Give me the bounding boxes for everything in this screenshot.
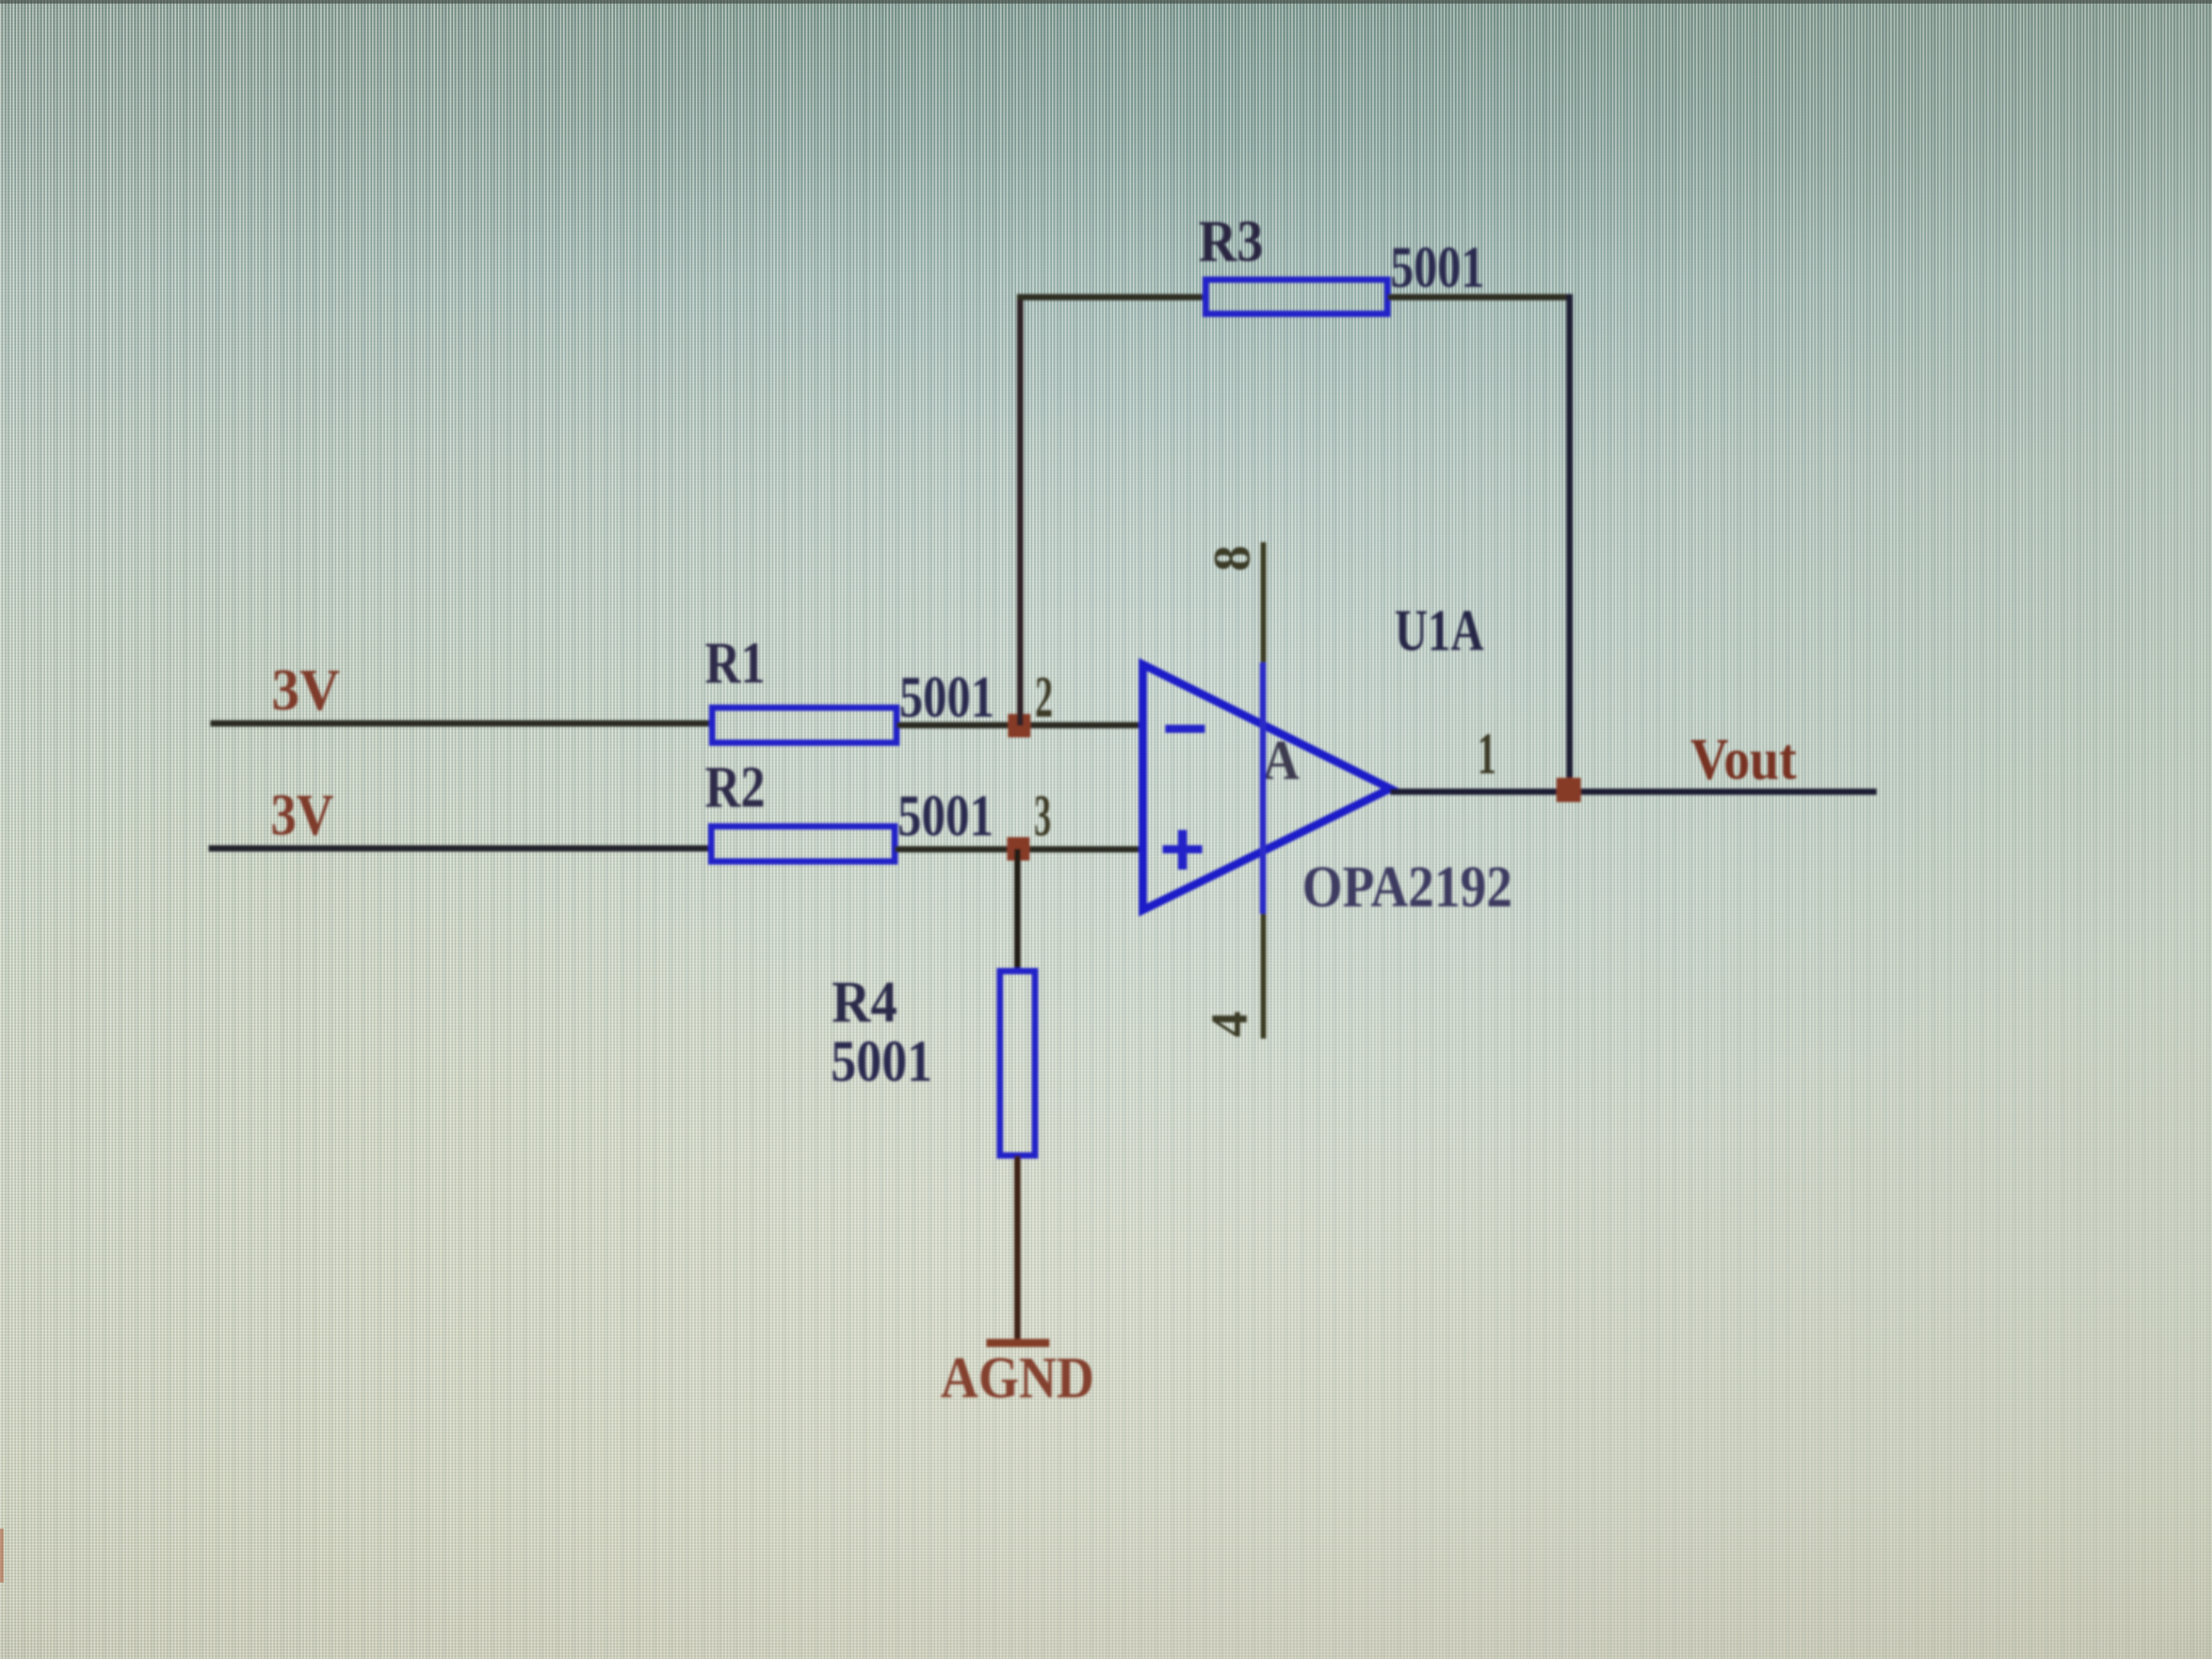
svg-text:Vout: Vout xyxy=(1690,727,1797,792)
op-amp non-inverting input plus symbol xyxy=(1163,830,1202,870)
wire feedback left vertical xyxy=(1017,296,1023,726)
wire negative supply pin 4 xyxy=(1261,914,1266,1039)
svg-text:AGND: AGND xyxy=(941,1345,1094,1411)
svg-text:4: 4 xyxy=(1200,1012,1259,1038)
op-amp power pin stub (blue) xyxy=(1260,663,1266,914)
svg-text:5001: 5001 xyxy=(897,783,994,849)
svg-text:3V: 3V xyxy=(272,657,340,723)
svg-text:R2: R2 xyxy=(705,754,765,820)
wire output pin 1 to Vout xyxy=(1390,789,1877,795)
svg-text:R3: R3 xyxy=(1199,209,1263,274)
wire junction to R4 xyxy=(1014,849,1021,971)
photo artifact: red sliver on left edge xyxy=(0,1529,4,1583)
wire positive supply pin 8 xyxy=(1261,542,1266,663)
svg-text:U1A: U1A xyxy=(1395,598,1484,664)
resistor R3 body xyxy=(1206,280,1387,314)
svg-text:R4: R4 xyxy=(832,969,897,1035)
svg-text:5001: 5001 xyxy=(1390,235,1485,300)
resistor R2 body xyxy=(711,826,895,861)
svg-text:R1: R1 xyxy=(705,630,765,696)
wire feedback top left segment xyxy=(1017,294,1206,300)
wire R1 to inverting input xyxy=(896,722,1145,728)
junction node at pin 3 xyxy=(1007,837,1030,861)
svg-text:3: 3 xyxy=(1034,783,1051,849)
junction node at pin 2 xyxy=(1008,714,1030,737)
op-amp U1A triangle xyxy=(1143,664,1390,910)
wire 3V input to R1 xyxy=(210,720,712,727)
resistor R4 body xyxy=(1000,971,1035,1155)
svg-text:OPA2192: OPA2192 xyxy=(1302,854,1512,920)
wire 3V input to R2 xyxy=(209,845,710,852)
wire R2 to non-inverting input xyxy=(895,846,1145,852)
svg-text:5001: 5001 xyxy=(899,664,995,730)
ground AGND bar symbol xyxy=(986,1339,1049,1347)
resistor R1 body xyxy=(712,708,896,743)
wire feedback right vertical xyxy=(1566,294,1573,791)
svg-text:8: 8 xyxy=(1203,546,1262,572)
svg-text:1: 1 xyxy=(1477,721,1496,787)
wire R4 to ground xyxy=(1014,1155,1021,1342)
svg-text:A: A xyxy=(1262,730,1299,791)
svg-text:2: 2 xyxy=(1035,664,1053,730)
op-amp inverting input minus symbol xyxy=(1165,725,1205,733)
junction node at output xyxy=(1556,778,1581,802)
wire feedback top right segment xyxy=(1387,294,1573,300)
svg-text:5001: 5001 xyxy=(831,1029,932,1094)
svg-text:3V: 3V xyxy=(271,782,334,848)
